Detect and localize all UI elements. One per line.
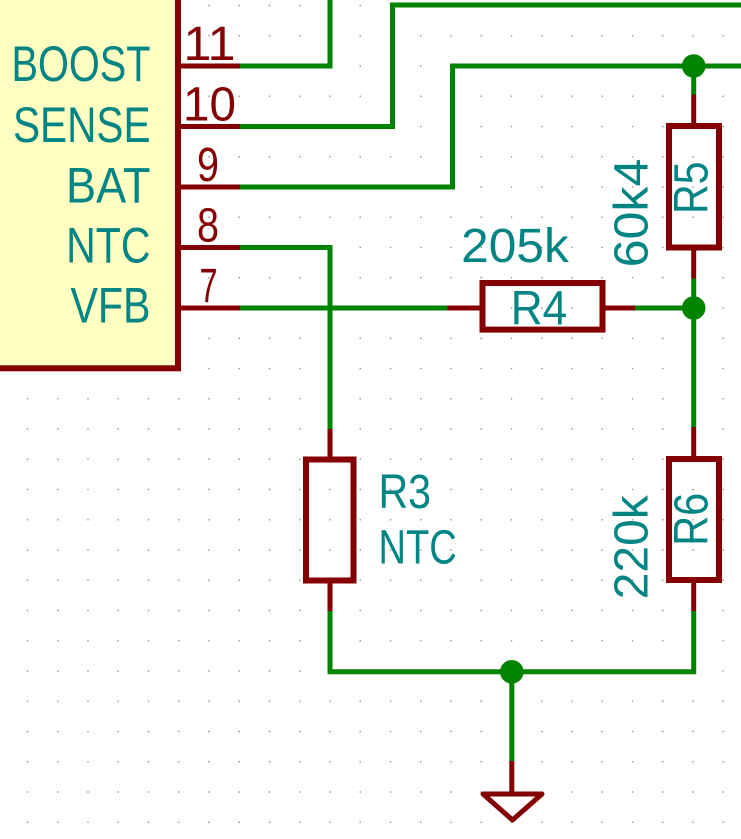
svg-text:R6: R6 (665, 493, 718, 546)
svg-text:205k: 205k (461, 220, 570, 273)
svg-text:R5: R5 (665, 162, 718, 215)
svg-text:NTC: NTC (66, 217, 150, 273)
svg-text:7: 7 (200, 260, 218, 313)
svg-text:R3: R3 (379, 466, 432, 519)
svg-text:60k4: 60k4 (606, 159, 659, 268)
svg-text:9: 9 (197, 139, 219, 192)
svg-text:10: 10 (183, 79, 236, 132)
svg-text:R4: R4 (511, 282, 568, 335)
svg-text:NTC: NTC (379, 521, 457, 574)
svg-text:VFB: VFB (71, 278, 151, 334)
svg-text:BOOST: BOOST (12, 36, 151, 92)
svg-text:220k: 220k (605, 494, 658, 599)
svg-text:BAT: BAT (66, 157, 151, 213)
svg-text:11: 11 (184, 18, 236, 71)
svg-text:8: 8 (197, 200, 219, 253)
svg-text:SENSE: SENSE (13, 97, 151, 153)
